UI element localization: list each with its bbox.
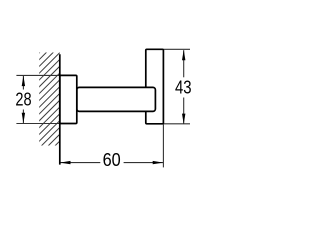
svg-text:28: 28 (15, 89, 31, 110)
svg-text:43: 43 (175, 76, 192, 97)
svg-text:60: 60 (103, 149, 121, 170)
